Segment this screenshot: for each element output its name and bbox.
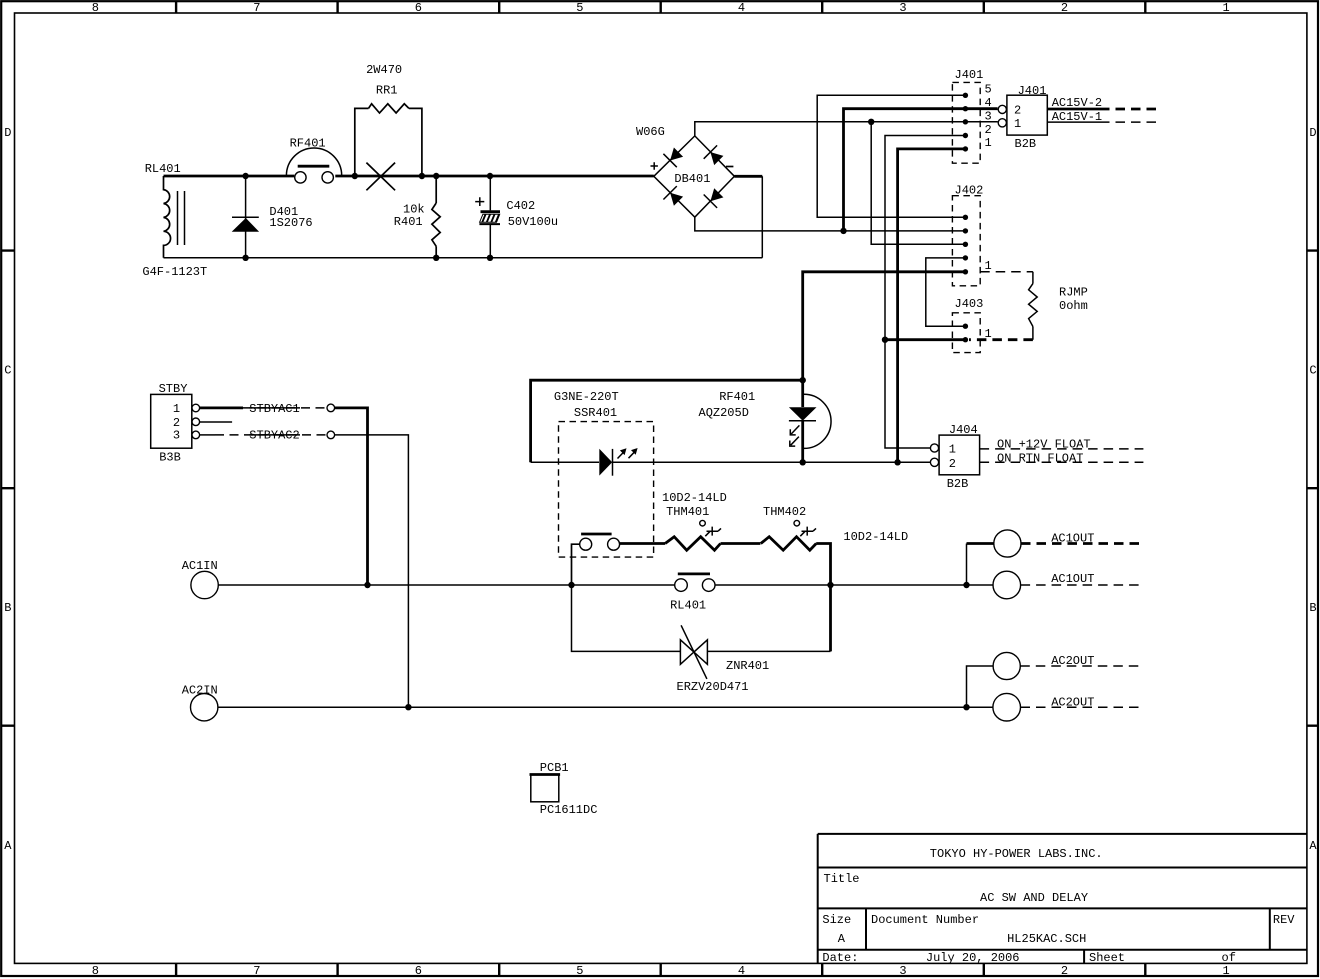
wire ZNR401 branch left [572, 585, 681, 651]
output terminal AC2OUT top [993, 652, 1020, 679]
svg-text:AC15V-2: AC15V-2 [1052, 96, 1102, 110]
svg-text:B2B: B2B [947, 477, 969, 491]
svg-text:1: 1 [985, 327, 992, 341]
svg-text:TOKYO HY-POWER LABS.INC.: TOKYO HY-POWER LABS.INC. [930, 847, 1103, 861]
svg-text:1: 1 [1222, 1, 1229, 15]
node circle STBYAC2 [327, 431, 335, 439]
wire THM401 to THM402 [721, 542, 761, 545]
svg-text:7: 7 [253, 964, 260, 978]
svg-text:ZNR401: ZNR401 [726, 659, 769, 673]
svg-text:B: B [4, 601, 11, 615]
svg-text:AC1OUT: AC1OUT [1051, 532, 1094, 546]
svg-text:PC1611DC: PC1611DC [540, 803, 598, 817]
connector STBY B3B [151, 394, 192, 448]
junction STBYAC2 on AC2 line [405, 704, 411, 710]
wire ZNR401 branch right [707, 650, 830, 652]
junction bridge-top line to J402.3 drop [868, 119, 874, 125]
pin numbers J401 5 4 3 2 1 [985, 82, 992, 150]
svg-text:ON +12V FLOAT: ON +12V FLOAT [997, 437, 1091, 451]
bridge rectifier DB401 diamond [654, 136, 735, 217]
wire main top net RF401 contact to bridge [335, 175, 654, 178]
svg-text:RJMP: RJMP [1059, 286, 1088, 300]
svg-text:50V100u: 50V100u [508, 215, 558, 229]
svg-text:2: 2 [1061, 964, 1068, 978]
svg-text:B: B [1309, 601, 1316, 615]
svg-text:3: 3 [173, 429, 180, 443]
svg-text:5: 5 [985, 82, 992, 96]
svg-text:C: C [4, 364, 11, 378]
svg-text:J403: J403 [955, 297, 984, 311]
svg-text:1: 1 [985, 259, 992, 273]
bridge diode upper-right [704, 145, 724, 165]
connector J401 B2B (mating half) [1007, 95, 1047, 135]
svg-text:J404: J404 [949, 423, 978, 437]
wire J401.5 to J402.1 [817, 95, 965, 217]
svg-text:5: 5 [576, 964, 583, 978]
svg-text:1: 1 [1222, 964, 1229, 978]
wire J402.5 thick to photorelay anode [803, 272, 966, 380]
wire STBY.2 stub [200, 421, 232, 423]
connector J401 (dashed header) [952, 82, 980, 163]
output terminal AC1OUT top [994, 530, 1021, 557]
border row letters right [1309, 126, 1317, 853]
wire SSR contact right thick to THM401 [620, 542, 666, 545]
net AC15V-2 dashed line [1047, 108, 1100, 111]
border column numbers bottom [92, 964, 1230, 978]
junction photorelay cathode on LED net [800, 459, 806, 465]
svg-text:A: A [838, 932, 846, 946]
svg-text:3: 3 [899, 1, 906, 15]
svg-text:4: 4 [738, 1, 745, 15]
junction R401 bottom [433, 255, 439, 261]
junction C402 bottom [487, 255, 493, 261]
wire dashed thick RJMP bottom to J403.1 [969, 338, 1033, 341]
wire STBYAC1 node thick to AC1 line [335, 408, 368, 585]
svg-text:4: 4 [738, 964, 745, 978]
svg-text:Sheet: Sheet [1089, 951, 1125, 965]
junction RR1 left on main line [352, 173, 358, 179]
svg-text:B2B: B2B [1015, 137, 1037, 151]
svg-text:AC2IN: AC2IN [182, 683, 218, 697]
net AC15V-1 dashed line [1047, 121, 1100, 123]
svg-text:AC2OUT: AC2OUT [1051, 695, 1094, 709]
junction J401.1 drop on LED net [894, 459, 900, 465]
svg-text:2: 2 [1014, 104, 1021, 118]
svg-text:AC1IN: AC1IN [182, 559, 218, 573]
wire AC1OUT drop to AC1 line [966, 544, 968, 586]
svg-text:D: D [1309, 126, 1316, 140]
solid state relay SSR401 dashed outline [559, 422, 654, 557]
relay coil RL401 [164, 176, 185, 258]
wire J401.4 thick to bridge-bottom net [844, 109, 998, 231]
output terminal AC2OUT bottom [993, 693, 1021, 721]
node circle STBYAC1 [327, 404, 335, 412]
pin dots J401 pins 5-1 [963, 93, 968, 152]
svg-text:AC2OUT: AC2OUT [1051, 654, 1094, 668]
svg-text:W06G: W06G [636, 125, 665, 139]
wire THM402 thick down to AC1 line [816, 544, 830, 652]
svg-text:RR1: RR1 [376, 84, 398, 98]
pin circle J404 pin2 [930, 458, 938, 466]
svg-text:1: 1 [949, 443, 956, 457]
wire net AC1 middle segment [572, 584, 994, 586]
svg-text:STBY: STBY [159, 382, 188, 396]
svg-text:J401: J401 [1018, 84, 1047, 98]
svg-text:Title: Title [824, 872, 860, 886]
wire net AC2 line [218, 706, 993, 708]
capacitor C402 (polarized) [475, 176, 500, 258]
svg-text:RL401: RL401 [145, 162, 181, 176]
svg-text:2: 2 [985, 123, 992, 137]
bridge diode upper-left [663, 148, 683, 168]
svg-text:R401: R401 [394, 215, 423, 229]
svg-text:J402: J402 [955, 184, 984, 198]
connector J402 (dashed header) [952, 196, 980, 286]
svg-text:5: 5 [576, 1, 583, 15]
svg-text:0ohm: 0ohm [1059, 299, 1088, 313]
net ON RTN FLOAT dashed line [980, 461, 1144, 463]
svg-text:1: 1 [985, 136, 992, 150]
net AC1OUT dashed line top (thick) [1021, 542, 1142, 545]
pin circle J404 pin1 [930, 444, 938, 452]
resistor R401 [432, 176, 440, 258]
svg-text:Document Number: Document Number [871, 913, 979, 927]
input terminal AC2IN [191, 694, 218, 721]
svg-text:7: 7 [253, 1, 260, 15]
svg-text:Size: Size [822, 913, 851, 927]
wire AC1OUT top feed thick [967, 542, 994, 545]
resistor RJMP 0ohm [1029, 272, 1038, 340]
svg-text:G3NE-220T: G3NE-220T [554, 390, 619, 404]
junction STBYAC1 on AC1 line [364, 582, 370, 588]
junction AC2OUT drop on AC2 [963, 704, 969, 710]
junction D401 top [242, 173, 248, 179]
wire SSR contact left to AC1 line [572, 544, 580, 585]
svg-text:G4F-1123T: G4F-1123T [142, 265, 207, 279]
wire dashed net STBYAC1 through label [243, 407, 327, 409]
svg-text:1S2076: 1S2076 [269, 216, 312, 230]
relay contact RF401 (on main line) [286, 148, 341, 183]
svg-text:B3B: B3B [159, 450, 181, 464]
svg-text:2: 2 [1061, 1, 1068, 15]
varistor ZNR401 [680, 625, 707, 679]
svg-text:SSR401: SSR401 [574, 406, 617, 420]
svg-text:RF401: RF401 [719, 390, 755, 404]
output terminal AC1OUT bottom [993, 571, 1021, 599]
svg-text:STBYAC2: STBYAC2 [249, 429, 299, 443]
svg-text:STBYAC1: STBYAC1 [249, 402, 299, 416]
relay contact RL401 (AC1 line) [675, 574, 715, 591]
pin dots J402 [963, 215, 968, 275]
wire bridge bottom vertex to net J402.2 [695, 217, 966, 231]
svg-text:1: 1 [1014, 117, 1021, 131]
svg-text:July 20, 2006: July 20, 2006 [926, 951, 1020, 965]
pin circles STBY 1 2 3 [192, 404, 200, 439]
no-connect X mark on main line [366, 163, 395, 191]
net AC2OUT dashed line bottom [1021, 706, 1143, 708]
bridge plus sign [651, 162, 658, 169]
svg-text:AC15V-1: AC15V-1 [1052, 110, 1102, 124]
wire SSR drive thick top/left loop [531, 380, 803, 462]
svg-text:AC SW AND DELAY: AC SW AND DELAY [980, 891, 1088, 905]
svg-text:6: 6 [415, 1, 422, 15]
svg-text:RF401: RF401 [290, 136, 326, 150]
photorelay RF401 AQZ205D [789, 380, 831, 462]
input terminal AC1IN [191, 571, 218, 598]
junction D401 bottom [242, 255, 248, 261]
svg-text:A: A [1309, 839, 1317, 853]
svg-text:10D2-14LD: 10D2-14LD [662, 491, 727, 505]
svg-text:10D2-14LD: 10D2-14LD [843, 530, 908, 544]
net AC2OUT dashed line top [1020, 665, 1142, 667]
svg-text:J401: J401 [955, 68, 984, 82]
wire dashed net STBYAC2 through label [215, 434, 327, 436]
junction R401 top [433, 173, 439, 179]
connector J404 B2B [939, 435, 980, 475]
svg-text:PCB1: PCB1 [540, 761, 569, 775]
svg-text:1: 1 [173, 402, 180, 416]
wire STBY.1 thick stub [200, 406, 243, 409]
wire J401.1 thick to SSR LED output net J404.2 [898, 149, 966, 462]
wire SSR LED net [531, 461, 931, 463]
wire dashed J402.1 pin to RJMP top [980, 271, 1033, 273]
net AC1OUT dashed line bottom [1021, 584, 1143, 586]
SSR401 output contact [580, 534, 620, 550]
svg-text:DB401: DB401 [674, 172, 710, 186]
component PCB1 outline [530, 775, 561, 802]
wire STBY.3 stub [200, 434, 215, 436]
svg-text:ERZV20D471: ERZV20D471 [677, 680, 749, 694]
bridge diode lower-right [704, 188, 724, 208]
connector J403 (dashed header) [952, 313, 980, 353]
junction C402 top [487, 173, 493, 179]
svg-text:2: 2 [949, 457, 956, 471]
junction AC1OUT drop on AC1 [963, 582, 969, 588]
svg-text:C402: C402 [506, 199, 535, 213]
wire bridge top vertex to net AC15V-1/J401.3 [695, 122, 966, 136]
thermistor THM401 [665, 520, 721, 550]
wire J402.3 drop from bridge-top net [871, 122, 965, 245]
diode D401 [232, 176, 259, 258]
wire J401.2 to J403.1 and J404.1 [885, 136, 965, 449]
pin circle J401-B2B pin2 [998, 105, 1006, 113]
border column numbers top [92, 1, 1230, 15]
svg-text:A: A [4, 839, 12, 853]
resistor RR1 [355, 104, 422, 176]
title block frame [818, 834, 1307, 964]
SSR401 input LED [599, 448, 637, 476]
bridge diode lower-left [663, 186, 683, 206]
svg-text:RL401: RL401 [670, 599, 706, 613]
wire net AC1 left segment [218, 584, 571, 586]
svg-text:THM401: THM401 [666, 505, 709, 519]
svg-text:C: C [1309, 364, 1316, 378]
net ON +12V FLOAT dashed line [980, 448, 1144, 450]
svg-text:HL25KAC.SCH: HL25KAC.SCH [1007, 932, 1086, 946]
pin circle J401-B2B pin1 [998, 119, 1006, 127]
svg-text:6: 6 [415, 964, 422, 978]
junction J401.4 drop on J402.2 line [840, 228, 846, 234]
svg-text:Date:: Date: [822, 951, 858, 965]
wire main top net from coil to RF401 contact [164, 175, 295, 178]
wire bottom return net [164, 176, 763, 257]
svg-text:8: 8 [92, 964, 99, 978]
junction RR1 right on main line [419, 173, 425, 179]
wire AC2OUT top feed and drop [967, 666, 994, 707]
junction SSR drive at photorelay anode [800, 377, 806, 383]
wire STBYAC2 node to AC2 line [335, 435, 409, 707]
svg-text:AC1OUT: AC1OUT [1051, 572, 1094, 586]
junction J403.1 with J401.2 vertical [882, 337, 888, 343]
junction THM drop on AC1 line [827, 582, 833, 588]
wire J403.1 thick to J401.2 net junction [885, 338, 965, 341]
svg-text:D: D [4, 126, 11, 140]
wire J401.3 to B2B header [965, 121, 997, 123]
svg-text:REV: REV [1273, 913, 1295, 927]
wire J402.4 to J403.2 [926, 258, 966, 326]
svg-text:3: 3 [899, 964, 906, 978]
svg-text:AQZ205D: AQZ205D [699, 406, 749, 420]
junction SSR bypass left on AC1 [568, 582, 574, 588]
svg-text:2W470: 2W470 [366, 63, 402, 77]
svg-text:8: 8 [92, 1, 99, 15]
border row letters left [4, 126, 12, 853]
pin dots J403 [963, 324, 968, 343]
svg-text:ON RTN FLOAT: ON RTN FLOAT [997, 451, 1083, 465]
svg-text:of: of [1222, 951, 1236, 965]
svg-text:THM402: THM402 [763, 505, 806, 519]
thermistor THM402 [761, 520, 816, 550]
bridge minus sign [726, 166, 733, 168]
